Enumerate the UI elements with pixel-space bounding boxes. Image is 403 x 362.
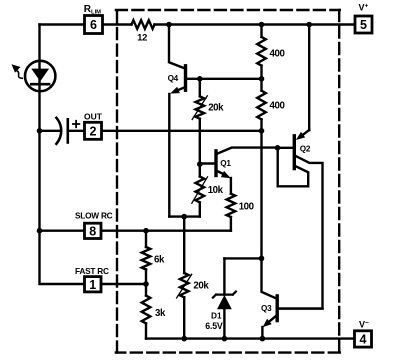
IC dashed border bottom bbox=[116, 351, 340, 353]
svg-text:Q1: Q1 bbox=[220, 159, 231, 168]
transistor Q3 bbox=[262, 258, 323, 338]
svg-text:6.5V: 6.5V bbox=[205, 321, 223, 331]
wire 10k bottom link bbox=[169, 215, 200, 217]
svg-text:400: 400 bbox=[270, 101, 285, 112]
svg-text:OUT: OUT bbox=[84, 112, 103, 122]
node 10k bottom bbox=[181, 214, 187, 220]
pin 8 box bbox=[85, 223, 102, 238]
wire bottom rail V- bbox=[146, 337, 355, 339]
resistor 400 lower bbox=[257, 79, 266, 131]
resistor 100 bbox=[227, 194, 236, 231]
node top 400 bbox=[259, 22, 265, 28]
IC dashed border right bbox=[338, 10, 340, 353]
wire SLOW RC line bbox=[102, 229, 231, 231]
resistor R12 12 bbox=[132, 20, 155, 29]
node OUT 400 bbox=[259, 128, 265, 134]
node Q2 base bbox=[275, 145, 281, 151]
wire OUT line bbox=[102, 130, 262, 132]
resistor 3k bbox=[142, 284, 151, 339]
svg-text:6: 6 bbox=[90, 18, 97, 32]
node top Q2 bbox=[306, 22, 312, 28]
wire OUT node down bbox=[260, 131, 262, 259]
svg-text:D1: D1 bbox=[211, 310, 222, 320]
transistor Q2 bbox=[278, 130, 323, 309]
node 20k bottom rail bbox=[181, 336, 187, 342]
svg-text:SLOW RC: SLOW RC bbox=[75, 211, 113, 221]
pin 1 box bbox=[85, 277, 102, 292]
pin 5 box bbox=[355, 16, 372, 33]
svg-text:FAST RC: FAST RC bbox=[75, 266, 109, 276]
wire FAST RC line bbox=[102, 283, 147, 285]
wire pin8 left bbox=[40, 229, 85, 231]
resistor 400 upper bbox=[257, 25, 266, 79]
wire V+ to Q2 emitter bbox=[308, 25, 310, 131]
potentiometer 20k lower bbox=[177, 217, 192, 339]
wire zener top link bbox=[224, 257, 261, 259]
svg-text:1: 1 bbox=[89, 278, 96, 292]
pin 6 box bbox=[85, 16, 103, 34]
svg-text:6k: 6k bbox=[154, 254, 165, 265]
svg-text:2: 2 bbox=[90, 125, 97, 139]
potentiometer 10k bbox=[192, 164, 208, 216]
node 6k 3k bbox=[143, 281, 149, 287]
svg-text:Q2: Q2 bbox=[300, 145, 311, 154]
wire left rail bbox=[40, 25, 85, 285]
IC dashed border top bbox=[116, 9, 340, 11]
svg-text:5: 5 bbox=[360, 18, 367, 32]
node top Q4 bbox=[166, 22, 172, 28]
svg-text:20k: 20k bbox=[208, 102, 224, 113]
LED photodiode bbox=[12, 61, 56, 91]
svg-text:10k: 10k bbox=[208, 185, 224, 196]
transistor Q4 bbox=[169, 25, 262, 217]
pin 4 box bbox=[355, 331, 372, 347]
svg-text:100: 100 bbox=[239, 202, 254, 213]
svg-text:8: 8 bbox=[89, 224, 96, 238]
svg-text:4: 4 bbox=[360, 333, 367, 347]
svg-text:Q4: Q4 bbox=[168, 74, 179, 83]
node zener top bbox=[259, 256, 265, 262]
node 6k top bbox=[143, 228, 149, 234]
svg-text:12: 12 bbox=[137, 33, 147, 44]
node Q4 base bbox=[197, 76, 203, 82]
svg-text:V+: V+ bbox=[359, 3, 369, 13]
svg-text:400: 400 bbox=[270, 48, 285, 59]
IC dashed border left bbox=[116, 10, 118, 353]
potentiometer 20k upper bbox=[192, 79, 207, 164]
node Q3 emitter rail bbox=[260, 336, 266, 342]
svg-text:Q3: Q3 bbox=[261, 304, 272, 313]
wire top rail V+ bbox=[40, 23, 356, 25]
node Q1 base bbox=[197, 161, 203, 167]
svg-text:RLIM: RLIM bbox=[84, 4, 101, 16]
node slow rc rail bbox=[37, 228, 43, 234]
svg-text:20k: 20k bbox=[193, 281, 209, 292]
transistor Q1 bbox=[200, 148, 278, 194]
node zener bottom rail bbox=[222, 336, 228, 342]
svg-text:V−: V− bbox=[359, 320, 369, 330]
zener diode D1 bbox=[213, 258, 236, 338]
capacitor C1 bbox=[40, 118, 85, 144]
pin 2 box bbox=[85, 122, 102, 139]
node LED cap bbox=[37, 128, 43, 134]
svg-text:3k: 3k bbox=[155, 308, 166, 319]
resistor 6k bbox=[142, 231, 151, 284]
node 400 mid bbox=[259, 76, 265, 82]
